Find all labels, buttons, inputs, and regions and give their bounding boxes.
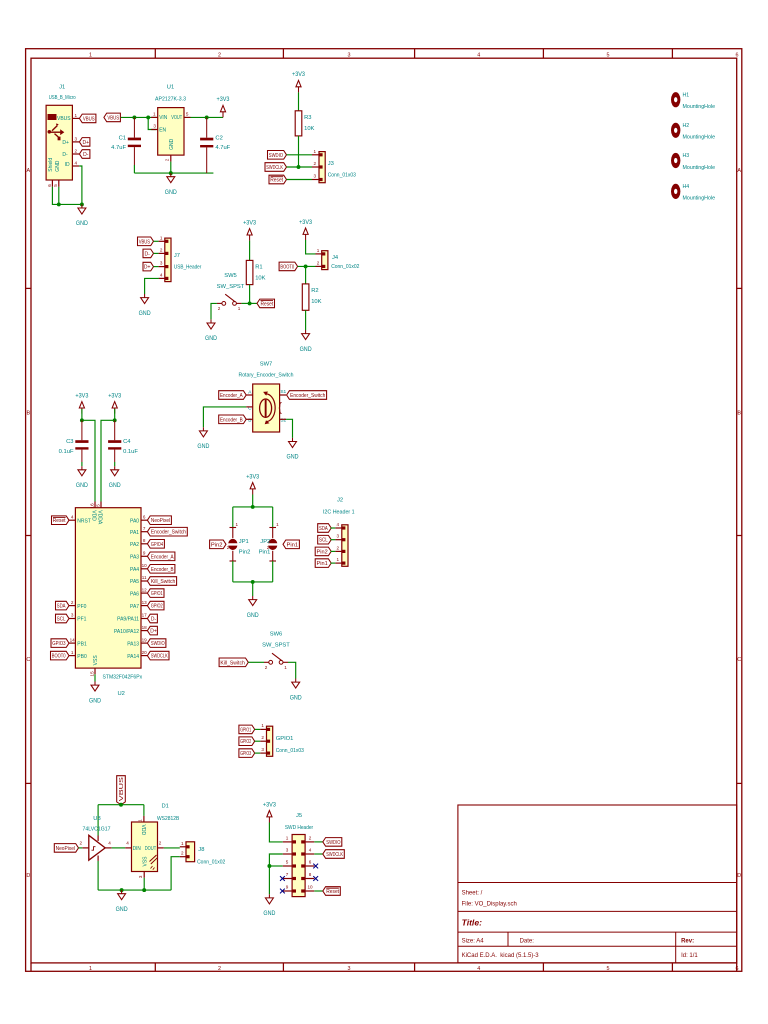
svg-text:+3V3: +3V3 [75,393,89,399]
svg-text:1: 1 [286,835,289,840]
svg-text:2: 2 [314,161,317,166]
svg-text:SWDCLK: SWDCLK [151,654,168,660]
ground at C4 [109,466,122,489]
svg-text:2: 2 [309,835,312,840]
svg-text:9: 9 [286,885,289,890]
wire SW7 S2 to GND [286,419,292,438]
svg-text:SDA: SDA [57,604,66,610]
svg-text:12: 12 [142,587,148,592]
svg-text:Title:: Title: [462,918,483,928]
net label Encoder_B at SW7 [219,415,247,424]
svg-text:Reset: Reset [261,301,274,307]
svg-text:2: 2 [227,545,230,550]
svg-text:PA1: PA1 [130,530,139,536]
mounting hole H2 [671,123,715,141]
ground at SW7 S2 [287,438,300,461]
ground at J7 [139,294,152,317]
svg-text:J5: J5 [296,813,302,819]
svg-text:JP1: JP1 [239,539,249,545]
svg-text:Size: A4: Size: A4 [462,939,485,945]
svg-text:U1: U1 [167,85,174,91]
svg-text:2: 2 [160,247,163,252]
svg-text:+3V3: +3V3 [243,220,257,226]
net label Pin2 at J2 [315,547,331,556]
svg-text:D+: D+ [150,629,157,635]
junction J1 ground node [80,202,84,206]
svg-text:Pin1: Pin1 [259,550,271,556]
svg-text:GND: GND [169,138,175,150]
svg-text:C2: C2 [215,136,222,142]
svg-text:VDDA: VDDA [97,510,103,525]
net label SWDCLK at U2 [147,651,169,660]
svg-text:Encoder_B: Encoder_B [151,567,174,573]
svg-text:Shield: Shield [48,158,54,172]
svg-text:2: 2 [218,966,221,972]
svg-text:1: 1 [89,53,92,59]
svg-text:GND: GND [165,190,178,196]
svg-text:Reset: Reset [53,518,66,524]
wire J5 pin 4 to SWDCLK [314,853,323,855]
wire U3 output to D1 DIN [112,847,126,849]
svg-text:WS2812B: WS2812B [157,816,179,822]
svg-text:3: 3 [153,124,156,129]
net label VBUS at J1 pin 1 [79,114,96,123]
net label GPIO1 at U2 [147,589,164,598]
svg-text:SW7: SW7 [260,362,273,368]
power +3V3 at C3 [75,393,89,413]
ground at C3 [76,466,89,489]
svg-text:PA6: PA6 [130,591,139,597]
svg-text:2: 2 [317,260,320,265]
ground at jumpers [247,596,260,619]
svg-text:USB_Header: USB_Header [174,265,201,271]
svg-text:3: 3 [75,136,78,141]
junction jumper bottom rail [251,580,255,584]
svg-text:Date:: Date: [520,939,535,945]
wire BOOT0 to J4 pin 2 [298,265,316,267]
svg-text:0.1uF: 0.1uF [59,449,74,455]
svg-text:GND: GND [116,907,129,913]
wire BOOT0 node to R2 [305,266,307,284]
svg-text:PB0: PB0 [77,654,87,660]
wire GPIO3 to pin 3 [255,752,261,754]
wire JP1 branch down [232,507,234,528]
jumper JP1 [227,522,251,561]
wire VBUS to J7 pin 1 [154,240,159,242]
svg-text:J4: J4 [332,255,339,261]
svg-text:4: 4 [477,966,480,972]
wire J1 ID pin to GND [52,166,82,204]
svg-text:2: 2 [261,735,264,740]
svg-text:1: 1 [71,650,74,655]
wire U3 GND down [97,861,99,890]
net label BOOT0 at U2 PB0 [51,651,70,660]
wire Pin1 to J2 pin 1 [331,562,336,564]
svg-text:2: 2 [218,306,221,311]
svg-text:19: 19 [142,637,148,642]
wire GPIO2 to pin 2 [255,740,261,742]
svg-text:16: 16 [89,503,94,509]
svg-text:1: 1 [238,306,241,311]
svg-text:C: C [737,657,741,663]
svg-text:GPIO1: GPIO1 [151,591,163,597]
svg-text:J3: J3 [328,161,334,167]
svg-text:GPIO2: GPIO2 [240,739,251,745]
svg-text:ID: ID [65,162,70,168]
svg-text:VBUS: VBUS [119,776,125,801]
net label Kill_Switch at SW6 [219,658,248,667]
net label SWDIO at J3 [268,151,287,160]
svg-text:18: 18 [142,625,148,630]
mounting hole H1 [671,92,715,110]
svg-text:SWDCLK: SWDCLK [266,165,283,171]
wire Reset to J3 pin 3 [287,179,313,181]
net label Pin2 at JP1 [210,540,226,549]
junction ground rail at GND [120,888,124,892]
svg-text:4.7uF: 4.7uF [111,145,126,151]
connector J1 USB_B_Micro [46,85,79,187]
svg-text:PA0: PA0 [130,518,139,524]
svg-text:GND: GND [109,483,122,489]
wire D- to J7 pin 2 [154,252,159,254]
net label Reset at U2 NRST [52,516,70,525]
wire J5 pin 5 gnd branch [269,865,282,867]
connector J8 Conn_01x02 [180,842,195,862]
svg-text:3: 3 [337,534,340,539]
svg-text:SCL: SCL [319,538,328,544]
ground at SW5 [205,319,218,342]
no-connect J5 pin 8 [313,876,318,881]
ground at SW6 [290,679,303,702]
wire J7 pin 4 to GND [145,278,159,294]
svg-text:GND: GND [247,613,260,619]
net label Pin1 at JP2 [283,540,299,549]
junction BOOT0 R2 [304,264,308,268]
svg-text:Conn_01x03: Conn_01x03 [276,748,304,754]
wire SW5 pin 2 to GND [211,303,217,319]
svg-text:PA3: PA3 [130,555,139,561]
svg-text:J1: J1 [59,85,65,91]
resistor R1 10K [246,260,265,284]
switch SW5 SW_SPST [217,273,245,311]
net label Kill_Switch at U2 [147,577,176,586]
svg-text:GND: GND [76,221,89,227]
svg-text:SCL: SCL [57,617,66,623]
ground at R2 [300,330,313,353]
svg-text:VDD: VDD [140,825,146,836]
svg-text:D-: D- [145,251,151,257]
svg-text:A: A [26,168,30,174]
svg-text:1: 1 [261,723,264,728]
wire +3V3 to R3 [298,92,300,110]
svg-text:74LVC1G17: 74LVC1G17 [83,827,111,833]
svg-text:PA14: PA14 [127,654,139,660]
capacitor C1 [111,117,141,165]
svg-text:BOOT0: BOOT0 [52,654,66,660]
svg-text:C4: C4 [123,439,131,445]
svg-text:4: 4 [160,272,163,277]
svg-text:GND: GND [290,695,303,701]
svg-text:7: 7 [143,526,146,531]
svg-text:R1: R1 [255,265,262,271]
svg-text:1: 1 [337,557,340,562]
svg-text:2: 2 [181,851,184,856]
power +3V3 at jumpers [246,474,260,494]
net label GPIO2 at J-GPIO [239,737,255,746]
svg-text:S1: S1 [280,389,286,395]
svg-text:A: A [737,168,741,174]
svg-text:VBUS: VBUS [107,115,119,121]
svg-text:GND: GND [300,347,313,353]
net label SCL at J2 [318,535,332,544]
svg-text:STM32F042F6Px: STM32F042F6Px [103,675,143,681]
svg-text:10K: 10K [311,299,321,305]
wire C3 node to VDD rail [82,420,95,501]
svg-text:NeoPixel: NeoPixel [56,846,75,852]
svg-text:15: 15 [89,671,94,677]
svg-text:SW6: SW6 [270,632,283,638]
svg-text:3: 3 [314,174,317,179]
resistor R3 10K [295,111,314,136]
wire C3 bottom to GND [81,462,83,466]
svg-text:Reset: Reset [270,178,283,184]
mounting hole H3 [671,153,715,171]
svg-text:SWDIO: SWDIO [326,840,340,846]
svg-text:Reset: Reset [326,889,339,895]
svg-text:U2: U2 [117,691,124,697]
net label GPIO3 at U2 PB1 [51,639,69,648]
wire +3V3 to J5 pin 1 [269,823,282,842]
net label Encoder_B at U2 [147,565,175,574]
wire J5 pin 2 to SWDIO [314,841,323,843]
svg-text:GND: GND [89,698,102,704]
svg-text:EN: EN [159,127,166,133]
jumper JP2 [259,522,279,561]
svg-text:B: B [737,411,741,417]
wire D1 DOUT to J8 pin 1 [164,847,180,849]
svg-text:D+: D+ [62,140,69,146]
svg-text:PA5: PA5 [130,579,139,585]
wire +3V3 to C4 node [114,409,116,420]
svg-text:VDD: VDD [91,510,97,521]
svg-text:PA13: PA13 [127,641,139,647]
svg-text:R2: R2 [311,288,318,294]
wire +3V3 to jumper rail [252,495,254,507]
junction C3 top node [80,418,84,422]
svg-text:2: 2 [265,665,268,670]
svg-text:U3: U3 [93,816,100,822]
svg-text:D+: D+ [82,140,89,146]
microcontroller U2 STM32F042F6Px [69,502,147,698]
power +3V3 at C4 [108,393,122,413]
svg-text:NRST: NRST [77,518,91,524]
net label GPIO3 at J-GPIO [239,749,255,758]
net label GPIO2 at U2 [147,601,164,610]
svg-text:GPIO2: GPIO2 [151,604,163,610]
junction VBUS rail [119,803,123,807]
svg-text:1: 1 [160,235,163,240]
svg-text:SWDIO: SWDIO [151,641,165,647]
svg-text:Kill_Switch: Kill_Switch [151,579,176,585]
svg-text:11: 11 [142,575,147,580]
wire C4 bottom to GND [114,462,116,466]
svg-text:D-: D- [83,152,89,158]
svg-text:2: 2 [218,53,221,59]
svg-text:B: B [248,417,251,423]
svg-text:KiCad E.D.A. kicad (5.1.5)-3: KiCad E.D.A. kicad (5.1.5)-3 [462,953,540,959]
svg-text:J7: J7 [174,253,180,259]
svg-text:Encoder_B: Encoder_B [220,417,243,423]
svg-text:AP2127K-3.3: AP2127K-3.3 [155,97,186,103]
svg-text:D-: D- [62,152,68,158]
svg-text:3: 3 [160,261,163,266]
wire +3V3 to C3 node [81,409,83,420]
svg-text:14: 14 [70,637,76,642]
svg-text:PA7: PA7 [130,604,139,610]
capacitor C3 0.1uF [59,420,89,462]
svg-text:BOOT0: BOOT0 [280,264,294,270]
ground at NeoPixel rail [116,890,129,913]
svg-text:17: 17 [142,613,148,618]
svg-text:5: 5 [607,53,610,59]
svg-text:0.1uF: 0.1uF [123,449,138,455]
svg-text:VSS: VSS [142,856,148,867]
svg-text:+3V3: +3V3 [292,72,306,78]
svg-text:B: B [26,411,30,417]
svg-text:D+: D+ [144,265,151,271]
svg-text:VSS: VSS [93,655,99,666]
no-connect J5 pin 7 [280,876,285,881]
wire R1 to Reset node [249,285,251,304]
wire ground rail C1-U1-C2 [134,172,213,174]
svg-text:4: 4 [75,160,78,165]
net label D- at J7 [143,249,154,258]
svg-text:C: C [26,657,30,663]
svg-text:C3: C3 [66,439,73,445]
mounting hole H4 [671,184,715,202]
svg-text:Pin2: Pin2 [211,542,223,548]
wire SDA to J2 pin 4 [331,527,336,529]
junction D1 VSS ground rail [142,888,146,892]
svg-text:SWDCLK: SWDCLK [326,852,343,858]
svg-text:10: 10 [307,885,313,890]
svg-text:+3V3: +3V3 [217,97,231,103]
svg-text:GPIO1: GPIO1 [240,727,251,733]
connector J2 I2C Header [335,525,348,567]
net label SWDIO at J5 [323,838,342,847]
wire SW5 pin 1 to Reset label [241,302,257,304]
wire J5 pin 10 to Reset [314,890,323,892]
svg-text:8: 8 [143,538,146,543]
svg-text:1: 1 [138,819,143,822]
power +3V3 at U1 output [217,97,231,117]
svg-text:Conn_01x02: Conn_01x02 [331,264,359,270]
svg-text:1: 1 [314,149,317,154]
wire rail to U3 VCC [97,805,99,836]
svg-text:GND: GND [76,483,89,489]
svg-text:GND: GND [55,160,61,172]
svg-text:PF0: PF0 [77,604,86,610]
svg-text:H3: H3 [683,153,690,159]
net label Pin1 at J2 [315,559,331,568]
svg-text:JP2: JP2 [260,539,270,545]
junction C1 top [132,115,136,119]
switch SW6 SW_SPST [262,632,290,671]
wire SWDCLK to J3 pin 2 [287,166,313,168]
net label GPIO4 at U2 [147,540,164,549]
svg-text:Rotary_Encoder_Switch: Rotary_Encoder_Switch [239,373,294,379]
net label SDA at J2 [318,524,332,533]
ground at J5 [263,894,276,917]
net label NeoPixel at U3 input [54,844,78,853]
svg-text:USB_B_Micro: USB_B_Micro [49,95,76,101]
svg-text:R3: R3 [304,115,311,121]
svg-text:4.7uF: 4.7uF [215,145,230,151]
svg-text:3: 3 [286,848,289,853]
svg-text:H2: H2 [683,123,690,129]
wire JP2 bottom [272,561,274,582]
wire SWDIO to J3 pin 1 [287,154,313,156]
LED driver D1 WS2812B [125,804,179,878]
svg-text:Conn_01x02: Conn_01x02 [197,859,225,865]
svg-text:1: 1 [236,522,239,527]
junction J1 GND pin [57,202,61,206]
svg-text:10K: 10K [255,276,265,282]
svg-text:I2C Header 1: I2C Header 1 [323,510,355,516]
svg-text:Encoder_Switch: Encoder_Switch [151,530,186,536]
connector J7 USB_Header [159,238,180,282]
svg-text:Conn_01x03: Conn_01x03 [328,172,356,178]
capacitor C4 0.1uF [108,420,138,462]
power +3V3 at J4 [299,220,313,240]
ground at J1 [76,204,89,227]
svg-text:VOUT: VOUT [171,115,182,121]
wire U1 GND pin down [170,162,172,174]
svg-text:H4: H4 [683,184,690,190]
svg-text:3: 3 [138,875,143,878]
svg-text:MountingHole: MountingHole [683,165,716,171]
net label VBUS vertical at NeoPixel rail [117,776,126,805]
regulator U1 AP2127K-3.3 [151,85,190,162]
svg-text:7: 7 [286,872,289,877]
net label SDA at U2 PF0 [56,601,70,610]
net label Reset at J5 [323,887,341,896]
net label Reset at J3 [269,175,287,184]
buffer U3 74LVC1G17 [80,816,112,861]
svg-text:1: 1 [276,522,279,527]
connector J3 Conn_01x03 [312,152,334,183]
svg-text:Pin1: Pin1 [287,542,299,548]
wire SW6 to GND [288,662,296,678]
svg-text:SWD Header: SWD Header [285,825,313,831]
wire D+ to J7 pin 3 [154,266,159,268]
svg-text:2: 2 [80,840,83,845]
svg-text:PA10/PA12: PA10/PA12 [114,629,139,635]
svg-text:SW_SPST: SW_SPST [217,284,245,290]
svg-text:1: 1 [317,248,320,253]
svg-text:J2: J2 [337,498,343,504]
svg-text:VBUS: VBUS [57,116,71,122]
wire +3V3 to J4 pin 1 [306,240,316,254]
svg-text:6: 6 [309,860,312,865]
wire jumper bottom rail [233,581,273,583]
wire jumper rail to GND [252,582,254,596]
svg-text:1: 1 [89,966,92,972]
svg-text:DOUT: DOUT [145,846,157,852]
net label D+ at J1 pin 3 [79,138,90,147]
junction C4 top node [113,418,117,422]
svg-text:2: 2 [159,841,162,846]
